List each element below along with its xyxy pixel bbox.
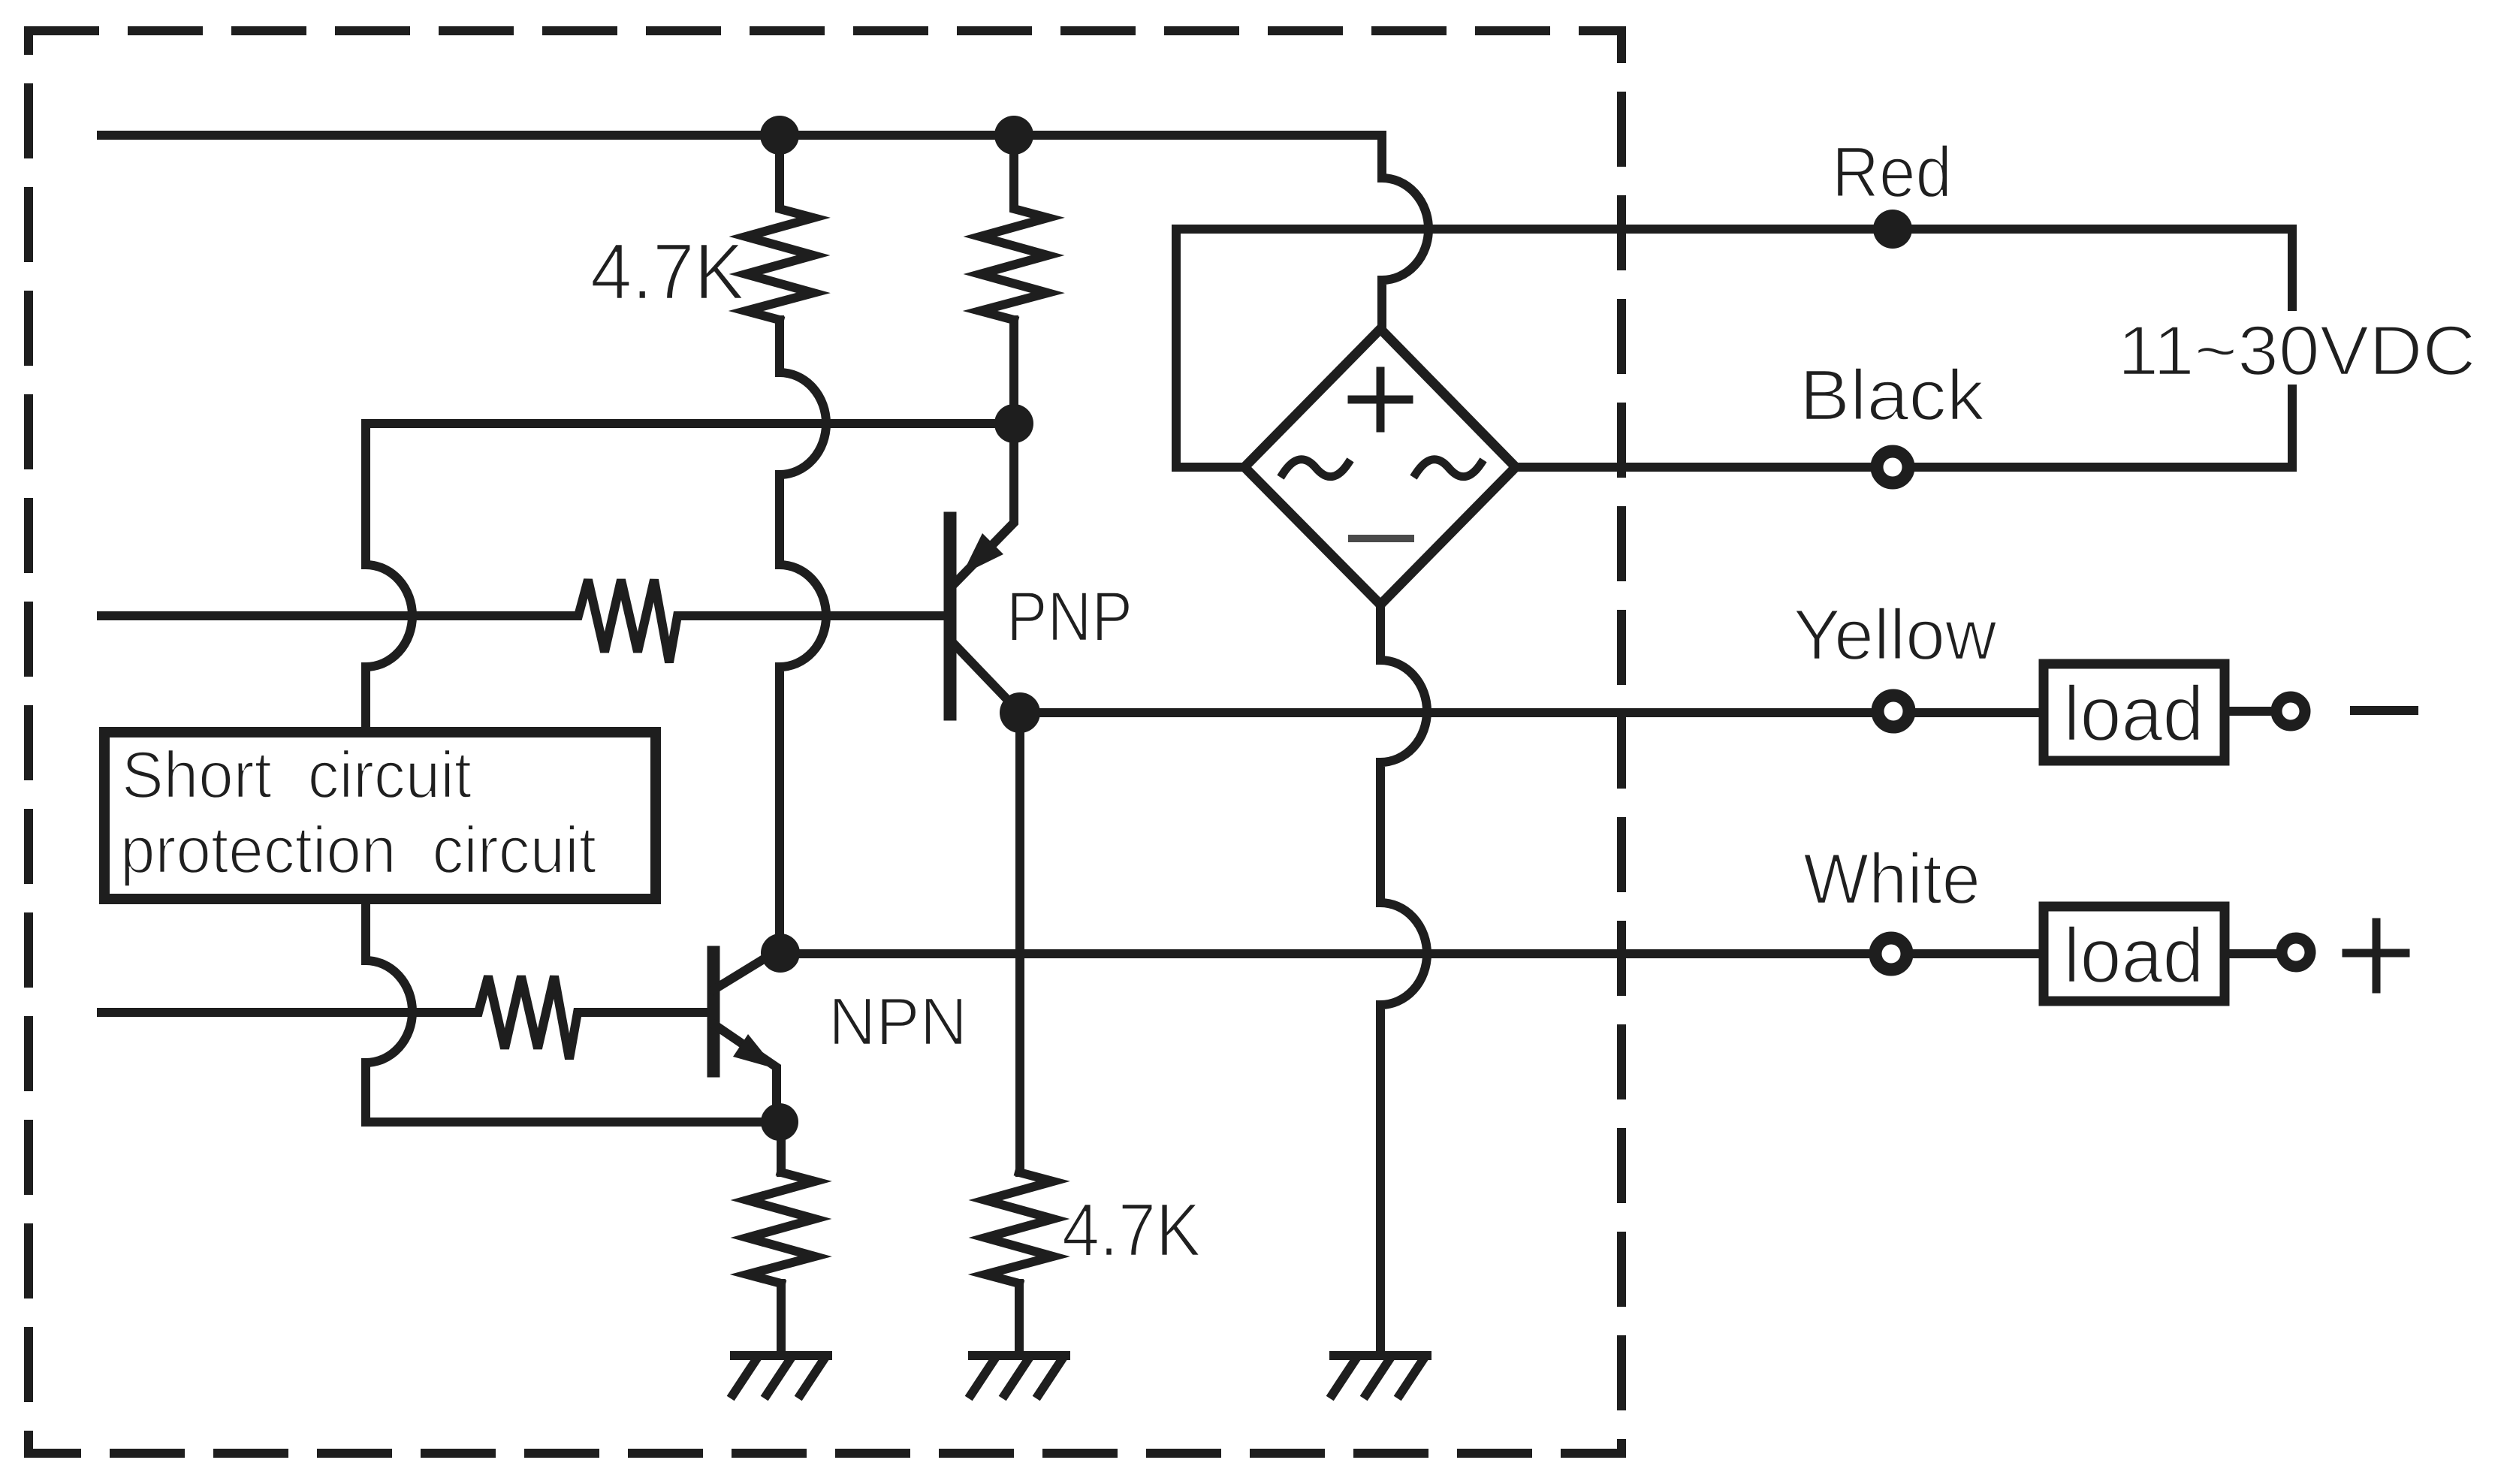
svg-text:NPN: NPN — [828, 985, 967, 1060]
ground G1 — [733, 1356, 828, 1395]
wire: PNP collector down lead — [1015, 713, 1024, 1172]
ground G3 — [1332, 1356, 1427, 1395]
svg-text:Red: Red — [1832, 132, 1952, 213]
wire: VL1 lower with hop over NPN base, to NPN emitter — [366, 899, 780, 1122]
PNP base wire with resistor — [101, 580, 944, 662]
short circuit protection box — [104, 732, 656, 899]
load box yellow — [2044, 664, 2225, 761]
wire: top supply rail — [101, 131, 1382, 140]
resistor R2 vertical — [980, 135, 1048, 320]
bridge plus symbol — [1352, 371, 1409, 428]
svg-text:11~30VDC: 11~30VDC — [2118, 311, 2476, 390]
load box white — [2044, 906, 2225, 1001]
junction dot NPN collector — [761, 934, 800, 973]
svg-text:PNP: PNP — [1006, 577, 1133, 656]
junction dot supply/R2 — [994, 116, 1033, 155]
PNP emitter lead — [952, 424, 1014, 586]
svg-text:load: load — [2064, 912, 2204, 1000]
svg-text:Yellow: Yellow — [1793, 595, 1998, 675]
wire: black supply return — [1516, 463, 2292, 472]
wire: white output — [780, 949, 2279, 958]
wire: R2 lower lead — [1009, 320, 1018, 424]
wire: W1 horizontal — [366, 419, 1014, 428]
junction dot PNP collector — [1000, 692, 1040, 733]
wire: red positive supply — [1176, 225, 2292, 234]
wire: R4 to ground — [1015, 1283, 1024, 1356]
svg-text:4.7K: 4.7K — [1062, 1188, 1201, 1272]
resistor R4 4.7K bottom — [985, 1172, 1053, 1283]
resistor R1 4.7K vertical — [746, 135, 813, 320]
white terminal ring — [1875, 938, 1907, 970]
dashed enclosure border — [29, 31, 1622, 1453]
wire: bridge bottom lead with hops — [1380, 605, 1427, 1356]
bridge left tilde — [1283, 460, 1348, 477]
NPN base wire with resistor — [101, 976, 710, 1059]
svg-text:Short circuit: Short circuit — [122, 737, 472, 812]
junction dot supply/R1 — [760, 116, 799, 155]
svg-text:protection circuit: protection circuit — [120, 813, 596, 887]
wire: bridge top lead with hop over red wire — [1382, 135, 1428, 330]
svg-text:4.7K: 4.7K — [590, 228, 744, 316]
wire: right edge down — [2288, 229, 2297, 467]
wire: NPN emitter to R5 — [777, 1122, 786, 1172]
ground G2 — [971, 1356, 1066, 1395]
label 11~30VDC — [2250, 311, 2334, 385]
bridge rectifier diamond — [1244, 329, 1516, 605]
junction dot NPN emitter — [761, 1103, 798, 1141]
resistor R5 bottom left — [747, 1172, 815, 1283]
yellow terminal ring — [1878, 695, 1909, 727]
junction dot PNP emitter node — [994, 404, 1033, 443]
plus sign — [2346, 922, 2406, 989]
minus sign — [2355, 706, 2414, 715]
svg-text:White: White — [1803, 839, 1981, 919]
PNP collector lead — [950, 640, 1020, 713]
svg-text:load: load — [2064, 671, 2204, 758]
wire: R1 lower lead with hops — [780, 320, 826, 953]
output ring white end — [2282, 938, 2310, 967]
NPN collector lead — [713, 955, 770, 990]
bridge right tilde — [1416, 460, 1481, 477]
wire: R5 to ground — [777, 1283, 786, 1356]
red terminal dot — [1873, 210, 1912, 249]
svg-text:Black: Black — [1800, 355, 1985, 436]
NPN transistor bar — [707, 952, 720, 1071]
output ring yellow end — [2276, 697, 2305, 725]
PNP transistor bar — [944, 518, 957, 714]
NPN emitter lead — [715, 1025, 777, 1107]
wire: yellow output — [1020, 711, 2276, 713]
bridge minus symbol — [1352, 535, 1410, 542]
black terminal ring — [1877, 451, 1908, 483]
NPN emitter arrow — [733, 1034, 776, 1069]
wire: VL1 upper with hop over PNP base — [366, 424, 412, 732]
PNP emitter arrow — [962, 533, 1003, 575]
wire: bridge left loop to red — [1176, 229, 1244, 467]
